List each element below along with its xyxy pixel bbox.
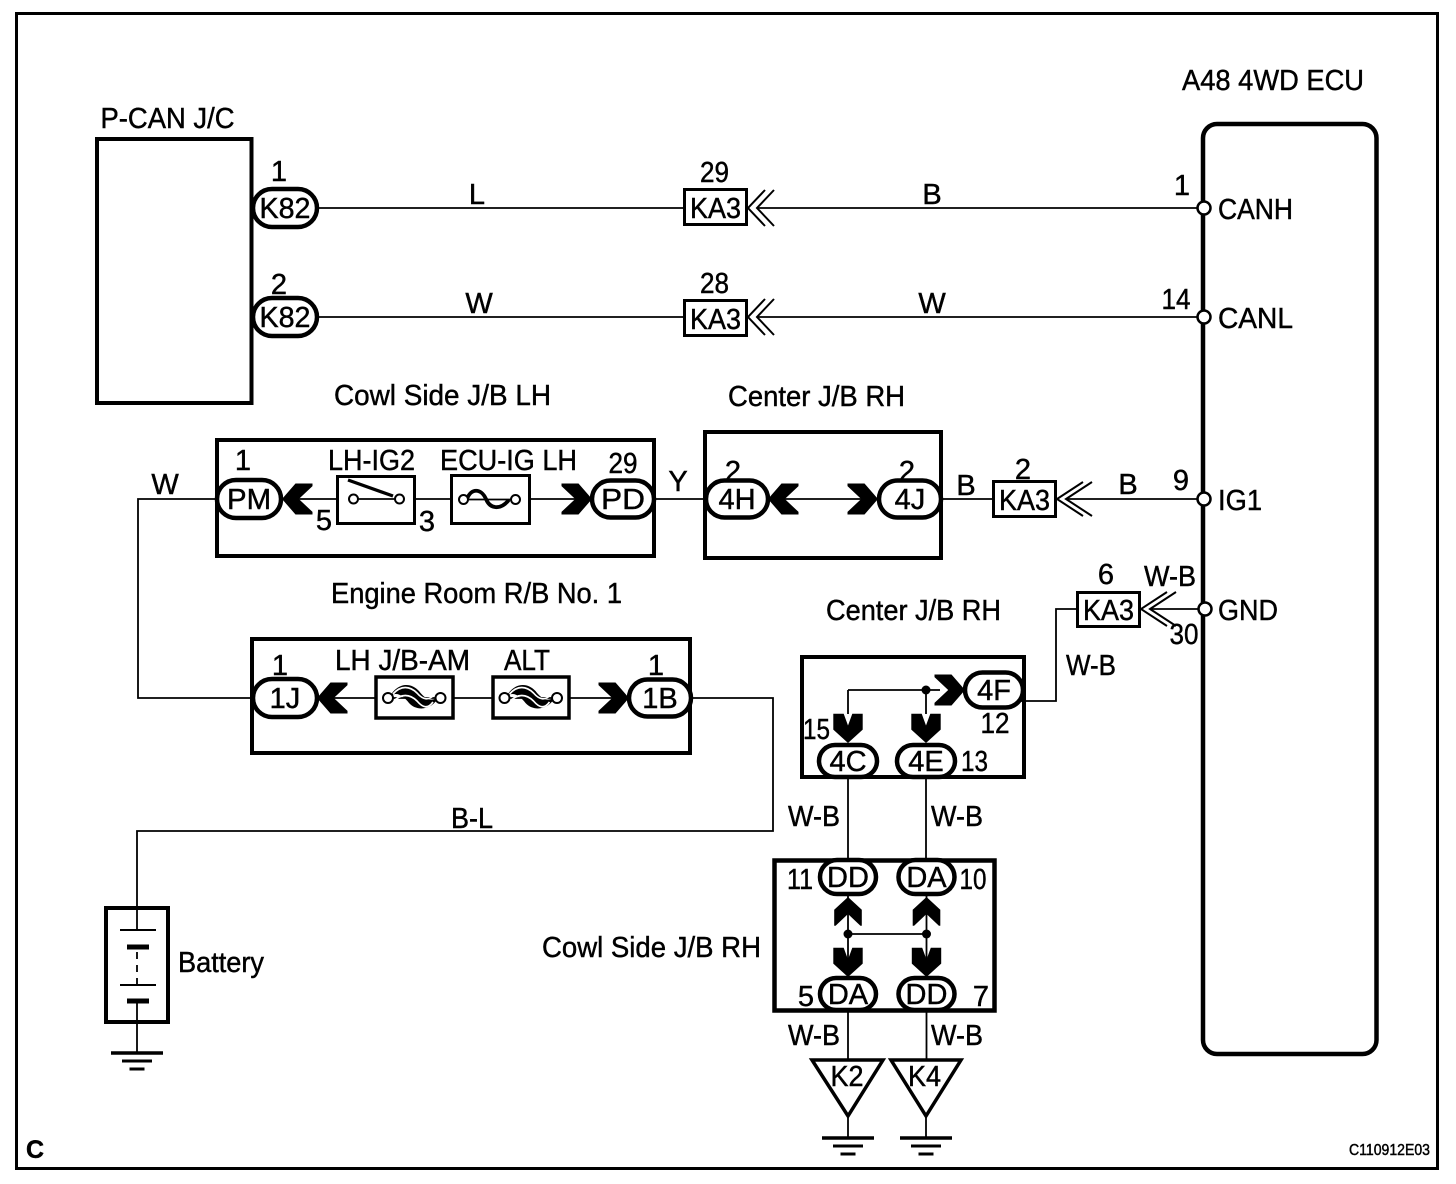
svg-text:CANH: CANH [1218, 194, 1293, 226]
svg-text:C: C [26, 1136, 44, 1164]
junction node [922, 930, 931, 939]
svg-text:KA3: KA3 [1083, 595, 1134, 627]
svg-text:12: 12 [981, 708, 1010, 740]
svg-text:LH J/B-AM: LH J/B-AM [335, 645, 470, 677]
svg-text:W-B: W-B [931, 801, 983, 833]
svg-text:Cowl Side J/B RH: Cowl Side J/B RH [542, 932, 761, 964]
svg-text:1: 1 [235, 445, 251, 477]
svg-text:1B: 1B [642, 683, 677, 715]
svg-text:ALT: ALT [504, 645, 550, 677]
wire W (PM to 1J via left rail) [138, 499, 254, 698]
wire (junction drops to 4C and 4E arrows) [847, 690, 849, 714]
svg-text:ECU-IG LH: ECU-IG LH [440, 445, 577, 477]
svg-text:15: 15 [803, 714, 830, 746]
svg-text:Battery: Battery [178, 947, 264, 979]
svg-text:6: 6 [1098, 559, 1114, 591]
svg-text:B: B [956, 470, 975, 502]
svg-text:W: W [465, 288, 493, 320]
fusible link LH J/B-AM [335, 645, 470, 718]
pin 14 CANL [1162, 284, 1294, 335]
ground (battery) [111, 1053, 163, 1069]
wire W-B (DD to K4) [926, 1010, 928, 1060]
svg-text:28: 28 [700, 268, 729, 300]
junction block Cowl Side J/B RH [542, 861, 995, 1011]
svg-text:10: 10 [960, 864, 987, 896]
svg-text:B-L: B-L [451, 803, 493, 835]
wire (PM to switch) [281, 498, 340, 500]
connector 1B pin 1 [599, 650, 692, 717]
ECU A48 4WD box [1182, 65, 1377, 1054]
connector DD pin 11 [787, 860, 876, 926]
svg-text:Cowl Side J/B LH: Cowl Side J/B LH [334, 380, 551, 412]
svg-text:KA3: KA3 [999, 485, 1050, 517]
wire W (KA3 to ECU CANL) [757, 316, 1197, 318]
svg-text:5: 5 [316, 505, 332, 537]
svg-text:Center J/B RH: Center J/B RH [728, 381, 905, 413]
svg-text:9: 9 [1173, 465, 1189, 497]
svg-text:1: 1 [1174, 170, 1190, 202]
wire (battery to ground) [136, 1022, 138, 1053]
svg-text:LH-IG2: LH-IG2 [328, 445, 415, 477]
connector KA3 pin 2 [994, 454, 1093, 517]
connector DA pin 10 [899, 860, 987, 926]
svg-text:5: 5 [798, 981, 814, 1013]
wire (junction link) [848, 933, 927, 935]
wire B-L (1B to battery) [137, 698, 773, 908]
svg-text:K82: K82 [260, 302, 311, 334]
connector KA3 pin 29 [685, 157, 775, 226]
svg-text:KA3: KA3 [690, 304, 741, 336]
connector 4E pin 13 [897, 714, 988, 778]
connector PM pin 1 [217, 445, 313, 518]
wire (LH J/B-AM to ALT) [453, 697, 495, 699]
wire (fuse to PD) [530, 498, 592, 500]
wire W (K82 to KA3) [300, 316, 690, 318]
junction block P-CAN J/C [97, 103, 252, 403]
svg-text:2: 2 [1015, 454, 1031, 486]
svg-text:4F: 4F [977, 675, 1011, 707]
svg-text:4C: 4C [829, 746, 866, 778]
svg-text:1: 1 [272, 650, 288, 682]
switch LH-IG2 [328, 445, 415, 524]
svg-text:PM: PM [227, 484, 271, 516]
svg-text:A48 4WD ECU: A48 4WD ECU [1182, 65, 1364, 97]
svg-text:29: 29 [609, 448, 638, 480]
connector 4F pin 12 [935, 673, 1024, 741]
svg-text:29: 29 [700, 157, 729, 189]
svg-text:1J: 1J [270, 683, 301, 715]
svg-text:K82: K82 [260, 193, 311, 225]
svg-text:DD: DD [906, 979, 948, 1011]
wire (1J to LH J/B-AM) [317, 697, 380, 699]
connector KA3 pin 28 [685, 268, 775, 336]
ground (K4) [900, 1138, 952, 1154]
connector K82 pin 1 [253, 156, 317, 227]
svg-text:K2: K2 [831, 1061, 864, 1093]
junction block Engine Room R/B No. 1 [252, 578, 690, 753]
wire L (K82 to KA3) [300, 207, 690, 209]
svg-text:4J: 4J [895, 484, 926, 516]
wire (junction to 4F) [848, 689, 940, 691]
junction block Cowl Side J/B LH [217, 380, 654, 556]
svg-text:B: B [922, 179, 941, 211]
svg-text:DA: DA [906, 862, 947, 894]
svg-text:Center J/B RH: Center J/B RH [826, 595, 1001, 627]
svg-text:7: 7 [973, 981, 989, 1013]
svg-text:P-CAN J/C: P-CAN J/C [101, 103, 235, 135]
svg-text:C110912E03: C110912E03 [1349, 1142, 1430, 1159]
svg-text:CANL: CANL [1218, 303, 1293, 335]
wire W-B (4C down to DD) [847, 777, 849, 862]
wire (chevron to GND pin) [1150, 608, 1198, 610]
connector DA pin 5 [798, 948, 876, 1013]
svg-text:1: 1 [271, 156, 287, 188]
svg-text:W-B: W-B [788, 801, 840, 833]
wire (DD-DA internal verticals) [847, 894, 849, 979]
pin 9 IG1 [1173, 465, 1262, 517]
wire (switch to fuse) [414, 498, 452, 500]
junction block Center J/B RH [705, 381, 941, 558]
wire B (4J to KA3) [941, 498, 995, 500]
wire W-B (DA to K2) [847, 1010, 849, 1060]
connector KA3 pin 6 [1078, 559, 1177, 627]
svg-text:W-B: W-B [931, 1020, 983, 1052]
wire W-B (4E down to DA) [925, 777, 927, 862]
junction node [922, 686, 931, 695]
svg-text:W-B: W-B [1066, 650, 1116, 682]
wire (ALT to 1B) [569, 697, 629, 699]
svg-text:KA3: KA3 [690, 193, 741, 225]
svg-text:DA: DA [828, 979, 869, 1011]
connector PD pin 29 [562, 448, 655, 518]
svg-text:IG1: IG1 [1218, 485, 1262, 517]
wire (4H to 4J) [768, 498, 878, 500]
connector 4J pin 2 [848, 456, 942, 518]
svg-text:4H: 4H [718, 484, 755, 516]
svg-text:3: 3 [419, 506, 435, 538]
ground (K2) [822, 1138, 874, 1154]
pin GND [1199, 595, 1279, 627]
svg-text:DD: DD [827, 862, 869, 894]
fusible link ALT [493, 645, 569, 718]
connector 4C pin 15 [803, 714, 877, 778]
svg-text:W-B: W-B [788, 1020, 840, 1052]
svg-text:Engine Room R/B No. 1: Engine Room R/B No. 1 [331, 578, 622, 610]
connector DD pin 7 [899, 948, 990, 1013]
svg-text:1: 1 [648, 650, 664, 682]
svg-text:GND: GND [1218, 595, 1278, 627]
svg-text:Y: Y [668, 466, 687, 498]
connector 4H pin 2 [706, 456, 799, 518]
svg-text:11: 11 [787, 864, 813, 896]
junction node [844, 930, 853, 939]
wire B (KA3 to ECU CANH) [757, 207, 1197, 209]
fuse ECU-IG LH [440, 445, 577, 524]
connector 1J pin 1 [253, 650, 348, 717]
wire B (KA3 to ECU IG1) [1066, 498, 1197, 500]
svg-text:2: 2 [725, 456, 741, 488]
connector K82 pin 2 [253, 269, 317, 336]
battery [106, 908, 264, 1022]
svg-text:PD: PD [601, 484, 645, 516]
svg-text:W: W [918, 288, 946, 320]
wire Y (PD to 4H) [654, 498, 706, 500]
wire W-B (4F to KA3 pin 6) [1020, 609, 1078, 701]
svg-text:2: 2 [271, 269, 287, 301]
ground connector K4 [891, 1060, 961, 1138]
junction block Center J/B RH (lower) [802, 595, 1024, 777]
svg-text:30: 30 [1170, 619, 1199, 651]
svg-text:K4: K4 [908, 1061, 941, 1093]
svg-text:13: 13 [961, 746, 988, 778]
svg-text:W: W [151, 469, 179, 501]
pin 1 CANH [1174, 170, 1293, 226]
svg-text:L: L [469, 179, 485, 211]
svg-text:B: B [1118, 469, 1137, 501]
svg-text:4E: 4E [908, 746, 943, 778]
ground connector K2 [812, 1060, 883, 1138]
svg-text:W-B: W-B [1144, 561, 1196, 593]
svg-text:14: 14 [1162, 284, 1191, 316]
svg-text:2: 2 [899, 456, 915, 488]
